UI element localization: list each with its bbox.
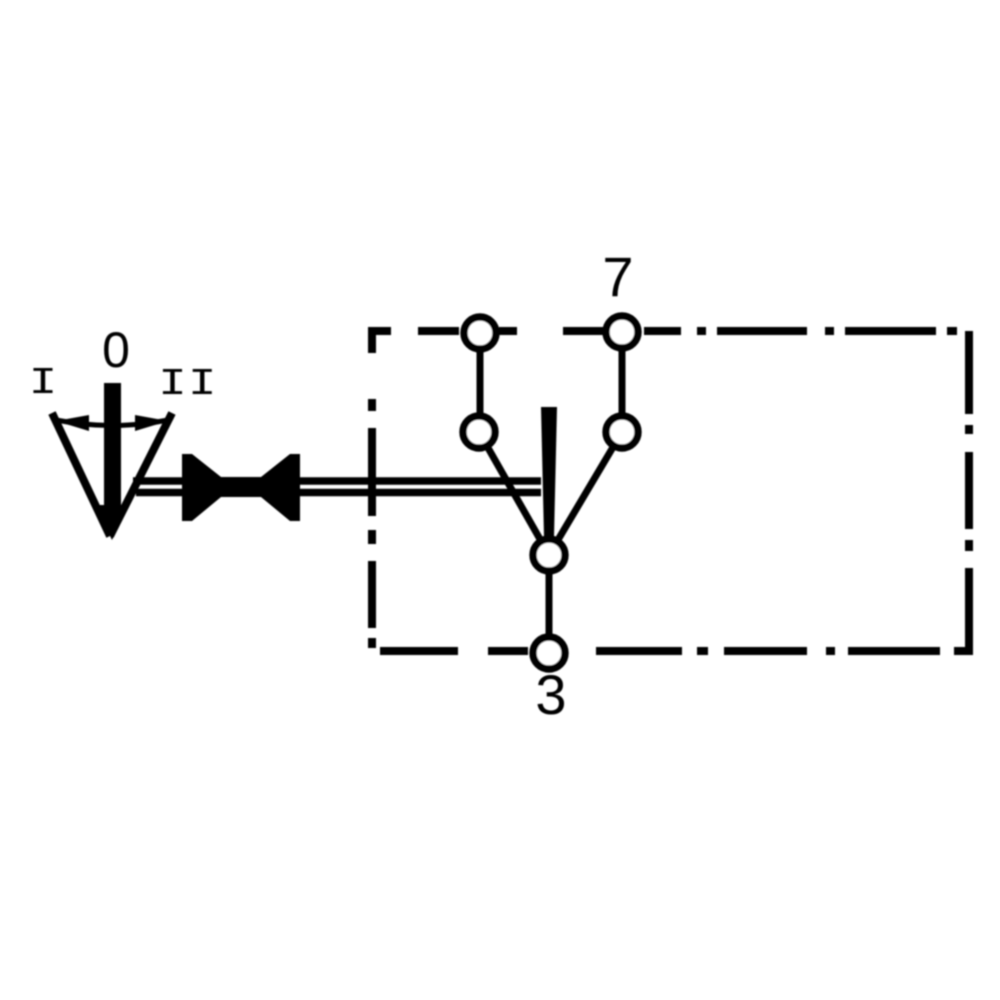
svg-text:7: 7 (602, 245, 633, 308)
svg-text:0: 0 (102, 322, 130, 378)
svg-text:II: II (158, 362, 217, 405)
svg-text:3: 3 (535, 663, 566, 726)
svg-text:I: I (29, 361, 58, 404)
